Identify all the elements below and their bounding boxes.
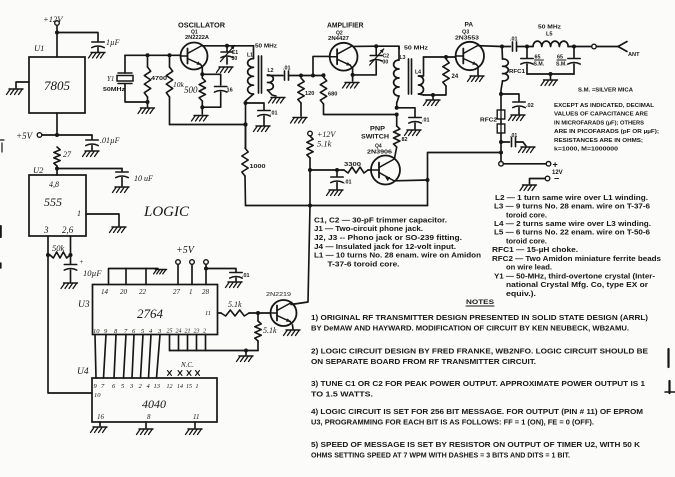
- label 50 MHz amp coil: [404, 46, 428, 52]
- ground .01 pnp: [327, 190, 344, 196]
- svg-text:C1, C2 — 30-pF trimmer capacit: C1, C2 — 30-pF trimmer capacitor.: [314, 215, 447, 224]
- ground 120: [291, 118, 308, 124]
- svg-text:NOTES: NOTES: [466, 299, 495, 306]
- U3 bottom pin labels: [93, 328, 206, 336]
- svg-text:L1: L1: [247, 53, 253, 59]
- svg-text:1: 1: [77, 209, 81, 218]
- wire U2 pin 2,6 down: [69, 236, 73, 264]
- wire Q2 base: [313, 56, 330, 75]
- svg-text:22: 22: [139, 288, 147, 296]
- wire Q2 emitter: [351, 68, 355, 81]
- resistor 120: [298, 78, 315, 116]
- parts list left column: [314, 215, 481, 268]
- inductor L4: [415, 57, 424, 95]
- transistor Q4: [368, 156, 400, 185]
- wire Q1 collector up: [201, 45, 203, 47]
- ground .01 osc: [254, 126, 271, 132]
- label 50 MHz osc coil: [255, 44, 277, 50]
- svg-text:5.1k: 5.1k: [263, 326, 277, 335]
- svg-text:L2 — 1 turn same wire over L1: L2 — 1 turn same wire over L1 winding.: [495, 193, 648, 202]
- svg-text:50MHz: 50MHz: [103, 87, 125, 93]
- ground Q3 emitter: [468, 76, 485, 82]
- pin 10 label: [94, 392, 101, 399]
- label Q2 2N4427: [328, 31, 349, 43]
- svg-text:AMPLIFIER: AMPLIFIER: [327, 23, 364, 30]
- label N.C.: [180, 361, 194, 369]
- wire Q2 collector: [353, 44, 378, 48]
- wire keyed bus: [246, 204, 428, 208]
- svg-text:23: 23: [194, 329, 200, 335]
- note 1: [311, 313, 649, 332]
- capacitor .01 amp supply: [409, 118, 430, 130]
- wire U4 pin8 gnd: [137, 422, 154, 435]
- wire 27 to U2 and 10uF rail: [55, 166, 122, 175]
- ground L4-24: [424, 100, 441, 106]
- svg-text:.01: .01: [270, 111, 278, 117]
- label 12V: [552, 170, 563, 176]
- ground below 10uF cap: [61, 283, 78, 289]
- svg-text:on wire lead.: on wire lead.: [506, 263, 552, 272]
- svg-text:.01: .01: [344, 180, 352, 186]
- note 4: [311, 407, 643, 426]
- capacitor .01 eprom: [230, 273, 250, 282]
- pin 2,6 label: [62, 225, 74, 235]
- svg-text:28: 28: [202, 288, 210, 296]
- wire keyline left: [426, 153, 502, 206]
- svg-text:4040: 4040: [142, 397, 166, 411]
- ground L2: [269, 98, 286, 104]
- node +5V terminals: [176, 260, 209, 265]
- svg-text:k=1000, M=1000000: k=1000, M=1000000: [554, 147, 618, 153]
- ground address strap: [154, 270, 167, 274]
- label LOGIC: [143, 204, 190, 220]
- pin 3 label: [43, 225, 49, 235]
- pin 11 label: [205, 310, 211, 317]
- svg-text:4700: 4700: [151, 76, 167, 82]
- transformer core T1: [259, 56, 262, 93]
- svg-text:J2, J3 -- Phono jack or SO-239: J2, J3 -- Phono jack or SO-239 fitting.: [314, 233, 462, 242]
- note S.M. silver mica: [578, 88, 633, 94]
- capacitor .01 PA out: [502, 37, 527, 52]
- wire +5V node: [42, 133, 92, 137]
- resistor 24: [443, 59, 459, 86]
- svg-text:15: 15: [186, 384, 192, 390]
- resistor 680: [320, 77, 396, 115]
- ground Q2 emitter: [343, 83, 360, 89]
- svg-text:national Crystal Mfg. Co, type: national Crystal Mfg. Co, type EX or: [506, 280, 648, 289]
- op-amp U3 2764 EPROM box: [78, 285, 218, 335]
- svg-text:7805: 7805: [44, 78, 71, 93]
- capacitor .01 keyline: [501, 133, 526, 147]
- wire Q1 emitter: [200, 67, 204, 78]
- antenna ANT: [618, 42, 640, 59]
- svg-text:Y1: Y1: [107, 75, 114, 83]
- wire amp input node: [299, 73, 326, 77]
- transformer core T2: [409, 59, 412, 94]
- svg-text:U4: U4: [77, 367, 89, 377]
- transistor Q2: [330, 43, 358, 71]
- svg-text:2N4427: 2N4427: [328, 36, 349, 42]
- svg-text:120: 120: [305, 91, 314, 97]
- artifact right edge: [665, 349, 675, 393]
- note 3: [311, 379, 645, 398]
- wire Q1 collector top rail: [202, 44, 253, 48]
- svg-text:equiv.).: equiv.).: [506, 289, 536, 298]
- svg-text:+5V: +5V: [16, 131, 34, 141]
- svg-text:1: 1: [189, 288, 193, 296]
- capacitor 1uF input bypass: [92, 38, 120, 52]
- capacitor 16: [202, 87, 232, 108]
- wire U1 ground pin: [16, 82, 29, 88]
- label 50 MHz filter: [538, 25, 561, 31]
- wire RFC2 down: [499, 133, 503, 161]
- capacitor .01uF on +5V: [86, 135, 120, 150]
- svg-text:3) TUNE C1 OR C2 FOR PEAK POWE: 3) TUNE C1 OR C2 FOR PEAK POWER OUTPUT. …: [311, 379, 645, 388]
- svg-text:50 MHz: 50 MHz: [538, 25, 561, 31]
- svg-text:2764: 2764: [137, 306, 164, 321]
- inductor L5: [525, 32, 576, 49]
- heading NOTES: [466, 299, 495, 306]
- ground U1: [7, 89, 24, 95]
- svg-text:24: 24: [452, 74, 459, 80]
- svg-text:2N2219: 2N2219: [266, 292, 291, 298]
- op-amp U1 7805 regulator box: [29, 43, 85, 113]
- U3 top pin labels: [101, 288, 210, 296]
- resistor 10k: [166, 55, 184, 124]
- svg-text:U1: U1: [34, 43, 44, 53]
- svg-text:.01: .01: [242, 273, 250, 279]
- svg-text:11: 11: [205, 310, 211, 317]
- wire 500 bottom: [200, 101, 204, 114]
- svg-text:.01: .01: [510, 133, 517, 139]
- value 2764: [137, 306, 164, 321]
- ground filter: [541, 80, 558, 86]
- node 12V+ terminal: [499, 160, 558, 170]
- svg-text:ARE IN PICOFARADS (pF OR µµF);: ARE IN PICOFARADS (pF OR µµF);: [554, 129, 659, 135]
- ground oscillator emitter: [192, 116, 209, 122]
- svg-text:20: 20: [120, 288, 128, 296]
- pin 1 label: [77, 209, 81, 218]
- svg-text:16: 16: [227, 88, 233, 94]
- node antenna jack: [574, 44, 618, 49]
- svg-text:ANT: ANT: [628, 52, 640, 58]
- inductor L1: [244, 46, 254, 105]
- wire filter bottom: [527, 72, 574, 79]
- svg-text:PA: PA: [465, 22, 474, 29]
- wire +12V vertical to U1: [55, 25, 59, 57]
- svg-text:J4 — Insulated jack for 12-vol: J4 — Insulated jack for 12-volt input.: [314, 242, 456, 251]
- capacitor .01 pnp base: [331, 170, 352, 189]
- inductor L2: [268, 68, 284, 96]
- svg-text:BY DeMAW AND HAYWARD. MODIFIC: BY DeMAW AND HAYWARD. MODIFICATION OF CI…: [311, 323, 629, 332]
- svg-text:27: 27: [173, 288, 181, 296]
- wire L4-24 bottom: [424, 86, 447, 99]
- wire oscillator bottom bus: [170, 123, 248, 127]
- svg-text:J1 — Two-circuit phone jack.: J1 — Two-circuit phone jack.: [314, 224, 423, 233]
- svg-text:5) SPEED OF MESSAGE IS SET BY: 5) SPEED OF MESSAGE IS SET BY RESISTOR O…: [311, 440, 641, 449]
- label Q1 2N2222A: [185, 30, 209, 42]
- svg-text:2N2222A: 2N2222A: [185, 35, 209, 41]
- resistor 5.1k pulldown: [255, 313, 277, 351]
- note capacitance convention: [554, 103, 659, 153]
- beads RFC2: [480, 94, 505, 133]
- svg-text:N.C.: N.C.: [180, 361, 194, 369]
- svg-text:8: 8: [147, 413, 151, 421]
- ground select bus: [237, 351, 254, 362]
- capacitor 65 SM left: [521, 47, 545, 75]
- svg-text:5.1k: 5.1k: [228, 300, 242, 309]
- capacitor 10uF polarized: [64, 258, 102, 282]
- nc X marks: [168, 371, 200, 376]
- U4 top pin labels: [94, 383, 199, 390]
- svg-text:27: 27: [63, 150, 72, 159]
- svg-text:21: 21: [185, 329, 191, 335]
- svg-text:VALUES OF CAPACITANCE ARE: VALUES OF CAPACITANCE ARE: [554, 112, 648, 118]
- svg-text:U2: U2: [33, 165, 44, 175]
- svg-text:10: 10: [94, 392, 101, 399]
- label PA: [465, 22, 474, 29]
- svg-text:L4 — 2 turns same wire over L3: L4 — 2 turns same wire over L3 winding.: [494, 219, 651, 228]
- svg-text:4,8: 4,8: [49, 180, 59, 189]
- svg-text:S.M. =SILVER MICA: S.M. =SILVER MICA: [578, 88, 633, 94]
- ground .01 keyline: [519, 147, 536, 153]
- svg-text:S.M.: S.M.: [534, 62, 545, 68]
- node +5V output terminal: [16, 131, 42, 141]
- svg-text:2N3553: 2N3553: [455, 36, 479, 42]
- svg-text:.02: .02: [526, 103, 534, 109]
- svg-text:5.1k: 5.1k: [317, 139, 332, 149]
- svg-text:10: 10: [93, 328, 100, 335]
- svg-text:toroid core.: toroid core.: [506, 236, 547, 245]
- svg-text:16: 16: [97, 413, 105, 421]
- op-amp U2 555 timer box: [29, 165, 86, 236]
- U4 bottom pin labels: [97, 413, 199, 421]
- svg-text:2) LOGIC CIRCUIT DESIGN BY FRE: 2) LOGIC CIRCUIT DESIGN BY FRED FRANKE, …: [311, 347, 648, 356]
- svg-text:500: 500: [184, 85, 198, 95]
- svg-text:13: 13: [154, 383, 161, 390]
- resistor 5.1k series: [218, 300, 271, 316]
- wire pin28 to .01: [206, 269, 236, 273]
- wire U2 pin1 to ground: [86, 214, 119, 226]
- wire U1 output down: [56, 113, 58, 135]
- svg-text:T-37-6 toroid core.: T-37-6 toroid core.: [328, 260, 400, 269]
- trimmer capacitor C1 30: [221, 46, 239, 65]
- svg-text:82: 82: [402, 137, 408, 143]
- svg-text:50 MHz: 50 MHz: [404, 46, 428, 52]
- svg-text:Y1 — 50-MHz, third-overtone cr: Y1 — 50-MHz, third-overtone crystal (Int…: [494, 271, 656, 280]
- svg-text:24: 24: [176, 328, 182, 335]
- wire +12V to 1uF cap: [57, 33, 98, 42]
- svg-text:680: 680: [328, 92, 337, 98]
- svg-text:3300: 3300: [344, 162, 361, 168]
- resistor 82: [394, 115, 408, 159]
- node RFC1 bottom: [499, 92, 503, 96]
- wire Q3 collector: [478, 45, 504, 49]
- wire 5.1k to base node: [308, 158, 312, 206]
- wire Q2 collector to L3: [376, 46, 399, 49]
- label OSCILLATOR: [178, 23, 225, 30]
- svg-text:L3: L3: [400, 55, 406, 61]
- wire base branch: [310, 168, 344, 172]
- wire U4 pin11 gnd: [186, 422, 203, 435]
- svg-text:10µF: 10µF: [83, 268, 102, 278]
- capacitor 10uF timer bypass: [116, 169, 153, 187]
- wire U4 pin16 gnd: [91, 422, 108, 433]
- wire U3-U4 data lines: [95, 335, 160, 379]
- svg-text:.01: .01: [283, 66, 291, 72]
- label AMPLIFIER: [327, 23, 364, 30]
- wire pin27 drop: [177, 264, 179, 284]
- ground below 1uF: [89, 53, 106, 59]
- svg-text:2N3906: 2N3906: [367, 150, 392, 156]
- node L3 bottom: [395, 106, 399, 117]
- capacitor .01 osc tank: [258, 111, 278, 126]
- ground crystal-4700: [138, 102, 155, 114]
- ground 12V-: [520, 185, 537, 191]
- svg-text:L3 — 9 turns No. 28 enam. wire: L3 — 9 turns No. 28 enam. wire on T-37-6: [494, 202, 650, 211]
- svg-text:25: 25: [167, 329, 173, 335]
- label Q4 2N3906: [367, 144, 392, 156]
- note 5: [311, 440, 641, 459]
- parts list right column: [492, 193, 661, 298]
- ground C1: [217, 67, 234, 73]
- svg-text:12: 12: [167, 384, 173, 390]
- svg-text:L1 — 10 turns No. 28 enam. wir: L1 — 10 turns No. 28 enam. wire on Amido…: [314, 251, 481, 260]
- wire Q5 emitter: [292, 325, 295, 329]
- svg-text:.01: .01: [422, 118, 430, 124]
- svg-text:ON SEPARATE BOARD FROM RF TRAN: ON SEPARATE BOARD FROM RF TRANSMITTER CI…: [311, 357, 536, 366]
- wire U2 pin3 down left bus: [46, 236, 92, 393]
- svg-text:14: 14: [177, 383, 183, 390]
- svg-text:RFC1 — 15-µH choke.: RFC1 — 15-µH choke.: [492, 245, 578, 254]
- svg-text:30: 30: [383, 60, 389, 66]
- svg-text:U3, PROGRAMMING FOR EACH BIT I: U3, PROGRAMMING FOR EACH BIT IS AS FOLLO…: [311, 418, 594, 427]
- wire emitter to 16 cap: [202, 74, 220, 85]
- ground below 10uF: [113, 187, 130, 193]
- wire address bus strap: [109, 269, 159, 285]
- transistor Q5 2N2219 keyer: [271, 300, 297, 326]
- svg-text:S.M.: S.M.: [556, 62, 567, 68]
- svg-text:3: 3: [43, 225, 49, 235]
- wire PA base rail: [424, 55, 456, 59]
- wire Q4 emitter out: [394, 179, 427, 182]
- svg-text:+: +: [553, 160, 558, 170]
- svg-text:RFC2 — Two Amidon miniature fe: RFC2 — Two Amidon miniature ferrite bead…: [492, 254, 661, 263]
- svg-text:EXCEPT AS INDICATED, DECIMAL: EXCEPT AS INDICATED, DECIMAL: [554, 103, 655, 109]
- ground .01 eprom: [226, 282, 243, 288]
- svg-text:1: 1: [196, 384, 199, 390]
- svg-text:1) ORIGINAL RF TRANSMITTER DES: 1) ORIGINAL RF TRANSMITTER DESIGN PRESEN…: [311, 313, 649, 322]
- artifact left edge: [0, 140, 4, 268]
- svg-text:SWITCH: SWITCH: [361, 134, 389, 141]
- svg-text:11: 11: [193, 413, 199, 421]
- trimmer capacitor C2 30: [353, 46, 390, 75]
- svg-text:RFC2: RFC2: [480, 118, 497, 124]
- svg-text:U3: U3: [78, 300, 90, 310]
- capacitor .01 coupling osc-amp: [283, 66, 301, 81]
- svg-text:TO 1.5 WATTS.: TO 1.5 WATTS.: [311, 389, 373, 398]
- svg-text:OHMS SETTING SPEED AT 7 WPM WI: OHMS SETTING SPEED AT 7 WPM WITH DASHES …: [311, 450, 570, 459]
- transistor Q1: [181, 43, 208, 70]
- crystal Y1 50MHz: [103, 55, 148, 102]
- svg-text:.01: .01: [510, 37, 518, 43]
- transistor Q3: [456, 42, 484, 70]
- svg-text:IN MICROFARADS (µF); OTHERS: IN MICROFARADS (µF); OTHERS: [554, 120, 644, 126]
- value 4040: [142, 397, 166, 411]
- value 555: [44, 195, 62, 209]
- svg-text:2: 2: [203, 329, 206, 335]
- svg-text:PNP: PNP: [370, 126, 386, 133]
- svg-text:RFC1: RFC1: [509, 69, 525, 75]
- label +5V eprom: [176, 245, 196, 256]
- wire Q1 base bus: [125, 53, 181, 57]
- svg-text:RESISTANCES ARE IN OHMS;: RESISTANCES ARE IN OHMS;: [554, 138, 643, 144]
- wire L1 bottom tap: [246, 103, 265, 110]
- svg-text:LOGIC: LOGIC: [143, 204, 190, 220]
- svg-text:14: 14: [101, 288, 109, 296]
- svg-text:OSCILLATOR: OSCILLATOR: [178, 23, 225, 30]
- ground U2 pin1: [110, 227, 127, 233]
- capacitor .02 bypass: [501, 94, 534, 114]
- resistor 1000: [242, 125, 266, 206]
- svg-text:1µF: 1µF: [106, 38, 120, 47]
- resistor 500: [184, 78, 206, 101]
- wire eprom select bus: [170, 335, 259, 353]
- svg-text:+12V: +12V: [43, 14, 64, 24]
- node +12V keyed terminal: [308, 130, 337, 139]
- svg-text:1000: 1000: [250, 164, 266, 170]
- svg-text:L5: L5: [546, 32, 553, 38]
- label PNP SWITCH: [361, 126, 389, 141]
- svg-text:+5V: +5V: [176, 245, 196, 256]
- svg-text:toroid core.: toroid core.: [506, 210, 547, 219]
- wire L3 node to .01: [397, 108, 415, 117]
- svg-text:−: −: [554, 174, 559, 184]
- svg-text:L5 — 6 turns No. 22 enam. wire: L5 — 6 turns No. 22 enam. wire on T-50-6: [494, 228, 650, 237]
- wire keyer collector drop: [291, 206, 310, 305]
- pin 4,8 label: [49, 180, 59, 189]
- svg-text:10 uF: 10 uF: [134, 174, 153, 183]
- inductor L3: [394, 46, 406, 108]
- ground Q5 emitter: [284, 330, 301, 336]
- svg-text:30: 30: [232, 56, 238, 62]
- wire pin28 drop: [204, 264, 208, 284]
- wire tank down to 1000: [244, 103, 248, 148]
- svg-text:L2: L2: [268, 68, 274, 74]
- op-amp U4 4040 counter box: [77, 367, 217, 422]
- svg-text:4) LOGIC CIRCUIT IS SET FOR 25: 4) LOGIC CIRCUIT IS SET FOR 256 BIT MESS…: [311, 407, 643, 416]
- svg-text:2,6: 2,6: [62, 225, 74, 235]
- wire pin1 drop: [191, 264, 193, 284]
- svg-text:.01µF: .01µF: [100, 136, 120, 145]
- label 2N2219: [266, 292, 291, 298]
- node +12V input terminal J4: [43, 14, 64, 25]
- resistor 3300: [344, 162, 368, 173]
- wire Q3 emitter: [477, 69, 479, 76]
- svg-text:50k: 50k: [52, 243, 65, 253]
- note 2: [311, 347, 648, 366]
- resistor 50k speed pot: [50, 243, 70, 258]
- svg-text:555: 555: [44, 195, 62, 209]
- resistor 5.1k keyed: [307, 136, 332, 158]
- ground .01 amp: [405, 130, 422, 136]
- ground .02: [509, 115, 526, 121]
- svg-text:50 MHz: 50 MHz: [255, 44, 277, 50]
- capacitor 65 SM right: [556, 47, 580, 75]
- resistor 27: [54, 147, 72, 166]
- node 12V- terminal: [530, 174, 560, 185]
- label Q3 2N3553: [455, 30, 479, 42]
